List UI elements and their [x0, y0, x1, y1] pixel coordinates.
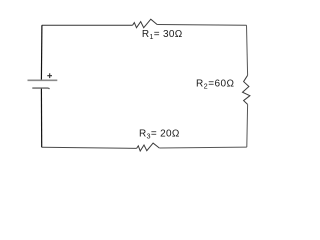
resistor R2: [243, 75, 250, 104]
svg-text:R3= 20Ω: R3= 20Ω: [139, 129, 180, 141]
wire right lower vertical: [246, 104, 249, 147]
wire right upper vertical: [247, 25, 248, 75]
battery plus sign: [47, 73, 52, 78]
wire bottom-right horizontal: [159, 146, 247, 149]
wire bottom-left horizontal: [42, 147, 137, 148]
battery B1 positive plate: [28, 79, 58, 81]
wire top-right horizontal: [157, 24, 246, 27]
svg-text:R1= 30Ω: R1= 30Ω: [142, 29, 183, 41]
svg-text:R2=60Ω: R2=60Ω: [196, 79, 235, 91]
wire left lower vertical: [40, 88, 42, 147]
resistor R1: [133, 19, 158, 28]
battery B1 negative plate: [32, 88, 49, 89]
wire left upper vertical: [40, 25, 43, 80]
resistor R3: [137, 143, 160, 151]
wire top-left horizontal: [42, 24, 133, 26]
